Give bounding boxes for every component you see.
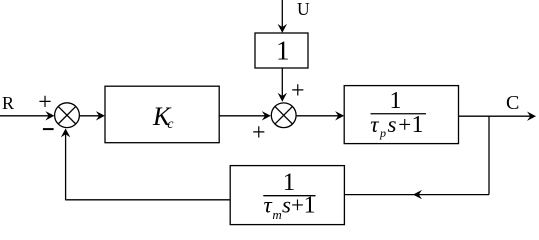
svg-text:+: +: [38, 89, 52, 115]
svg-text:1: 1: [390, 88, 402, 114]
svg-text:R: R: [2, 93, 14, 113]
svg-text:p: p: [379, 126, 386, 140]
svg-text:U: U: [297, 0, 310, 19]
svg-text:1: 1: [276, 36, 290, 66]
svg-text:+: +: [398, 112, 411, 137]
svg-text:s: s: [388, 112, 397, 137]
svg-text:s: s: [282, 192, 291, 217]
svg-text:τ: τ: [370, 112, 379, 137]
svg-text:+: +: [252, 120, 266, 146]
svg-text:1: 1: [412, 112, 424, 138]
svg-text:+: +: [291, 192, 304, 217]
svg-text:1: 1: [304, 192, 316, 218]
svg-text:m: m: [272, 207, 281, 222]
svg-text:+: +: [291, 78, 305, 104]
svg-text:c: c: [167, 117, 174, 132]
svg-text:C: C: [506, 92, 519, 114]
svg-text:τ: τ: [264, 192, 273, 217]
